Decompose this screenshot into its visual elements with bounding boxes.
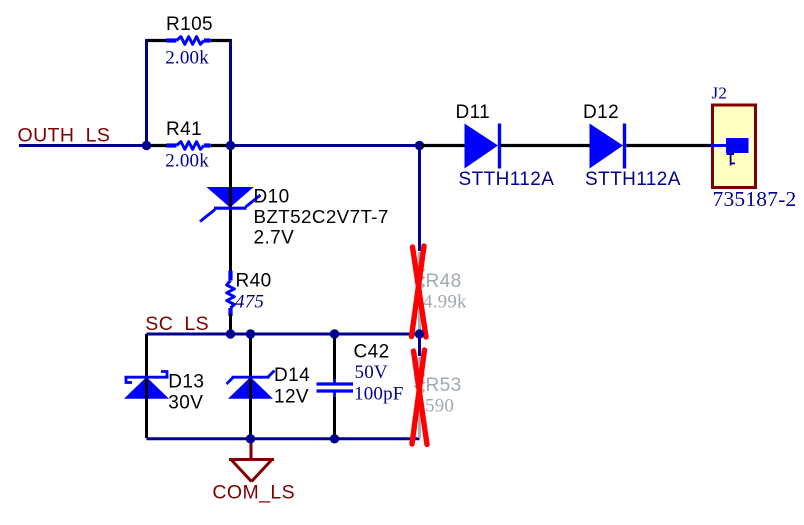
zener diode D14 <box>227 334 311 438</box>
junction dot at R48 top <box>415 141 424 150</box>
wire vertical right branch to R105 <box>229 39 232 146</box>
pin number 1 of J2 <box>727 154 736 166</box>
svg-text:R53: R53 <box>426 375 462 396</box>
svg-text:D10: D10 <box>254 187 290 208</box>
svg-text:735187-2: 735187-2 <box>713 187 797 211</box>
capacitor C42 <box>317 335 404 438</box>
diode D11 <box>421 102 590 190</box>
svg-text:J2: J2 <box>712 84 728 103</box>
net label SC_LS <box>145 313 209 335</box>
wire vertical left branch to R105 <box>145 39 148 146</box>
svg-text:R41: R41 <box>166 119 202 140</box>
connector J2 <box>711 84 797 212</box>
svg-text:100pF: 100pF <box>354 384 404 405</box>
junction dot SC_LS at x=334 <box>330 329 339 338</box>
resistor R48 (not stuffed, gray) <box>416 252 467 332</box>
svg-text:BZT52C2V7T-7: BZT52C2V7T-7 <box>254 206 389 227</box>
ground symbol COM_LS <box>229 440 274 482</box>
svg-text:2.00k: 2.00k <box>165 151 209 172</box>
zener diode D13 <box>124 334 204 438</box>
svg-text:50V: 50V <box>355 362 388 383</box>
svg-text:2.7V: 2.7V <box>254 228 295 249</box>
svg-text:COM_LS: COM_LS <box>212 482 295 504</box>
junction dot bottom rail at x=334 <box>330 434 339 443</box>
junction dot SC_LS at x=250 <box>246 329 255 338</box>
wire bottom rail <box>147 437 420 440</box>
svg-text:R48: R48 <box>426 271 462 292</box>
net label COM_LS <box>212 482 295 504</box>
wire OUTH_LS middle segment <box>231 144 420 147</box>
svg-text:30V: 30V <box>168 393 203 414</box>
resistor R53 (not stuffed, gray) <box>416 357 462 438</box>
svg-text:D14: D14 <box>274 365 310 386</box>
junction dot at R41 right <box>226 141 235 150</box>
svg-text:STTH112A: STTH112A <box>459 169 555 190</box>
svg-text:R40: R40 <box>236 271 272 292</box>
svg-text:SC_LS: SC_LS <box>145 313 209 335</box>
resistor R105 <box>147 14 231 68</box>
junction dot SC_LS at x=230 <box>226 329 235 338</box>
resistor R41 <box>147 119 231 172</box>
zener diode D10 <box>200 147 389 272</box>
net label OUTH_LS <box>18 125 111 147</box>
junction dot at OUTH_LS / R41 left <box>142 141 151 150</box>
svg-text:D13: D13 <box>168 371 204 392</box>
svg-text:R105: R105 <box>166 14 213 35</box>
svg-text:475: 475 <box>235 292 264 313</box>
svg-text:C42: C42 <box>354 342 390 363</box>
red X over R53 <box>412 350 427 445</box>
svg-text:D12: D12 <box>583 102 619 123</box>
wire R48 column top <box>418 147 421 251</box>
junction dot SC_LS at x=419 <box>415 329 424 338</box>
svg-text:OUTH_LS: OUTH_LS <box>18 125 111 147</box>
svg-text:4.99k: 4.99k <box>423 292 467 313</box>
svg-text:12V: 12V <box>274 387 309 408</box>
svg-text:2.00k: 2.00k <box>165 48 209 69</box>
diode D12 <box>583 102 712 190</box>
red X over R48 <box>412 246 427 337</box>
svg-text:D11: D11 <box>456 102 491 123</box>
svg-text:STTH112A: STTH112A <box>585 169 681 190</box>
wire SC_LS rail <box>147 333 420 336</box>
wire OUTH_LS left segment <box>19 144 147 147</box>
wire R53 column stub <box>418 335 421 356</box>
junction dot bottom rail at x=250 <box>246 434 255 443</box>
svg-text:590: 590 <box>425 396 454 417</box>
resistor R40 <box>227 271 272 334</box>
